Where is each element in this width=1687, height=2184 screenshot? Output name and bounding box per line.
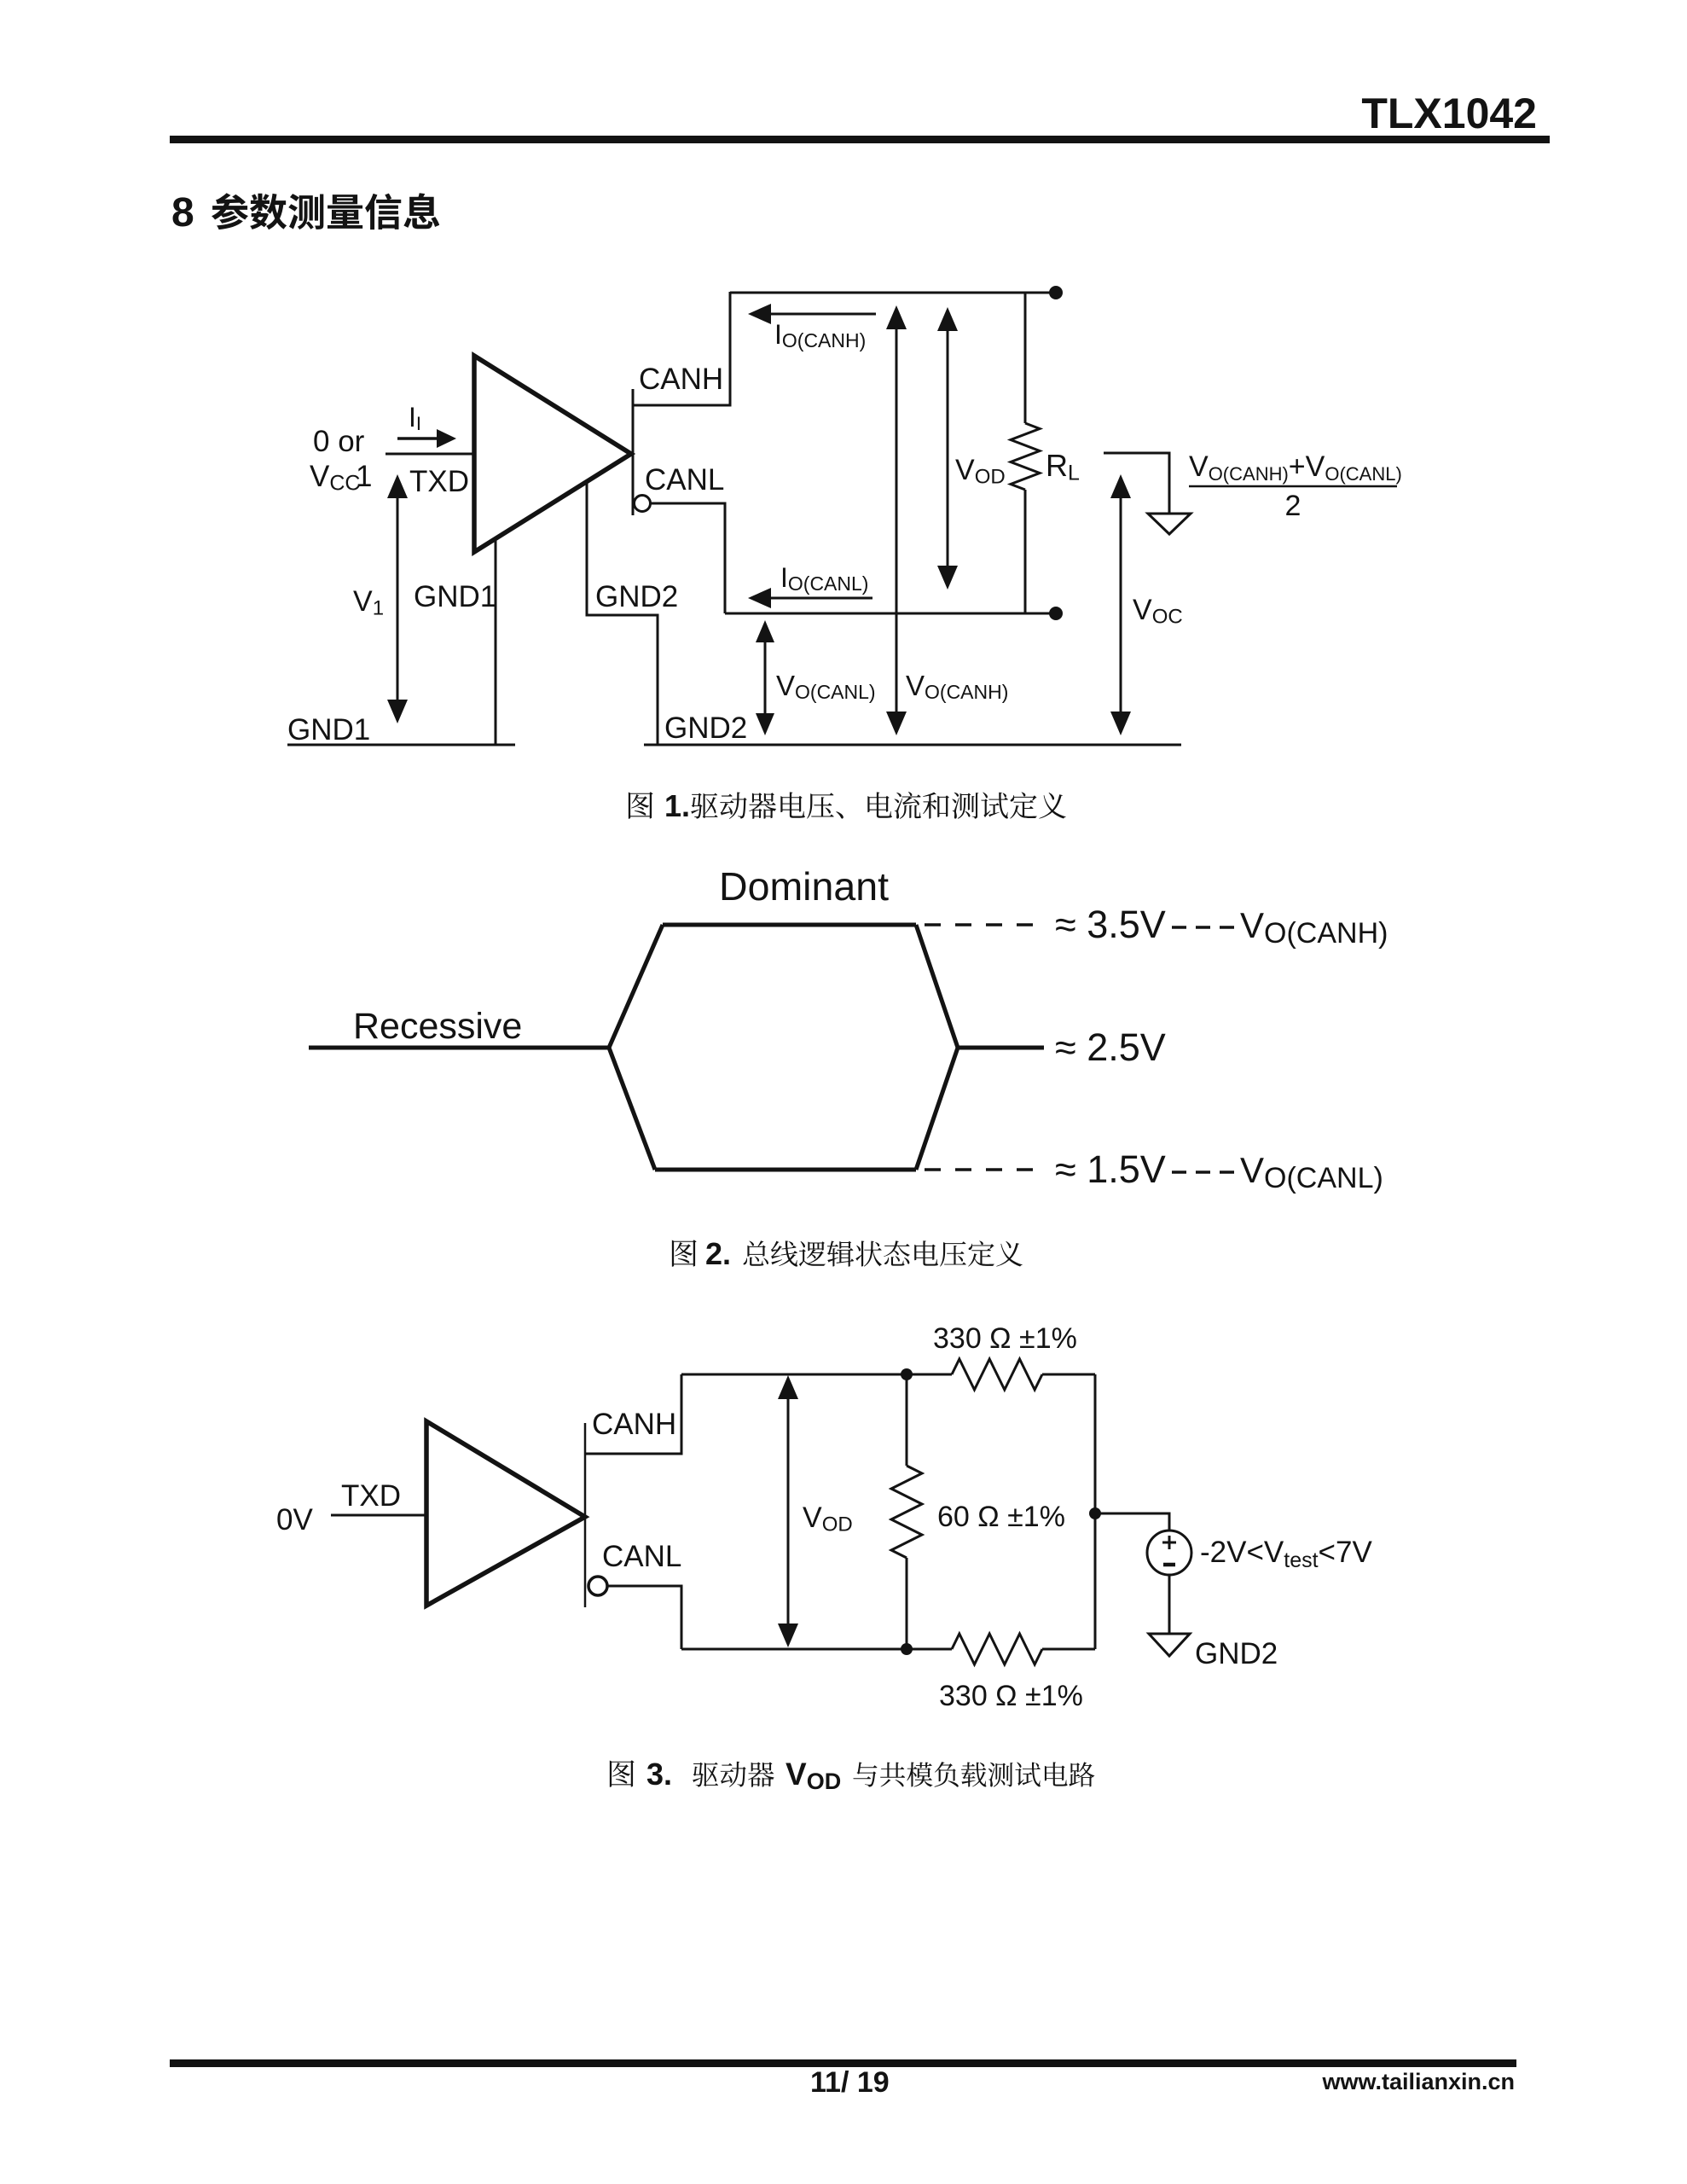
- inverter bubble on CANL output: [635, 496, 651, 512]
- header: document title TLX1042: [0, 92, 1537, 135]
- recessive level wire (right): [958, 1046, 1044, 1050]
- dashed level line 3.5V: [925, 923, 1046, 926]
- eye right edge to CANH: [916, 925, 958, 1048]
- recessive level wire (left): [309, 1046, 609, 1050]
- bus eye diagram top (dominant CANH): [663, 923, 916, 927]
- driver op-amp U1 (figure 1): [474, 356, 631, 552]
- GND1 wire from driver: [495, 537, 497, 745]
- wire CANL to bottom rail: [651, 503, 725, 613]
- current IO(CANH) arrow: [769, 313, 876, 316]
- eye left rising edge: [609, 925, 663, 1048]
- source minus sign: [1163, 1563, 1175, 1567]
- eye left falling edge: [609, 1048, 655, 1170]
- resistor RL: [1024, 293, 1027, 423]
- wire CANL to bottom rail: [607, 1586, 681, 1649]
- source plus sign: [1162, 1536, 1176, 1549]
- ground GND2 symbol: [1149, 1634, 1190, 1656]
- node bottom-right junction: [1049, 607, 1063, 620]
- wire to measurement ground: [1104, 453, 1169, 514]
- wire to source Vtest: [1095, 1513, 1169, 1531]
- svg-text:VOD: VOD: [786, 1757, 841, 1794]
- voltage VO(CANL) arrow: [764, 641, 767, 715]
- header rule: [170, 136, 1550, 143]
- top rail wire right: [1042, 1374, 1095, 1376]
- current II arrow: [397, 437, 438, 440]
- bottom rail wire left: [681, 1648, 952, 1651]
- source Vtest circle: [1147, 1531, 1191, 1575]
- bottom rail (CANL bus) wire: [725, 613, 1058, 615]
- bottom rail wire right: [1042, 1648, 1095, 1651]
- inverter bubble on CANL output: [588, 1577, 607, 1595]
- node top junction: [901, 1368, 913, 1380]
- GND1 rail: [287, 744, 515, 746]
- footer website: [1322, 2071, 1515, 2094]
- footer rule: [170, 2059, 1516, 2067]
- wire CANH to top rail: [633, 292, 730, 405]
- formula fraction bar: [1189, 485, 1397, 488]
- wire source to ground: [1168, 1575, 1171, 1634]
- voltage VOD arrow: [787, 1397, 790, 1625]
- dashed level line 1.5V: [925, 1168, 1046, 1171]
- measurement ground symbol: [1148, 514, 1191, 534]
- node top-right junction: [1049, 286, 1063, 299]
- node bottom junction: [901, 1643, 913, 1655]
- eye right edge to CANL: [916, 1048, 958, 1170]
- GND2 rail: [644, 744, 1181, 746]
- right vertical bus wire: [1094, 1374, 1097, 1649]
- dashes after 3.5V: [1172, 926, 1237, 929]
- TXD input wire: [386, 453, 474, 456]
- U2 output bar: [584, 1423, 587, 1607]
- top rail (CANH bus) wire: [730, 292, 1058, 294]
- resistor R2 330ohm (bottom): [952, 1634, 1042, 1664]
- svg-text:3.: 3.: [646, 1757, 672, 1792]
- TXD input wire: [331, 1514, 426, 1517]
- voltage VOC arrow: [1120, 497, 1122, 713]
- U1 output bar: [632, 389, 635, 515]
- resistor R1 330ohm (top): [952, 1359, 1042, 1390]
- voltage VOD arrow: [947, 329, 949, 567]
- dashes after 1.5V: [1172, 1170, 1237, 1174]
- wire CANH to top rail: [585, 1374, 681, 1454]
- bus eye diagram bottom (dominant CANL): [655, 1168, 916, 1172]
- voltage V1 arrow: [397, 497, 399, 701]
- current IO(CANL) arrow: [769, 597, 872, 600]
- voltage VO(CANH) arrow: [896, 328, 898, 713]
- top rail wire left: [681, 1374, 952, 1376]
- GND2 wire from driver: [587, 480, 658, 745]
- footer page number: [810, 2068, 890, 2097]
- node mid junction: [1089, 1507, 1101, 1519]
- resistor R3 60ohm (middle): [906, 1374, 908, 1466]
- driver op-amp U2 (figure 3): [426, 1421, 585, 1606]
